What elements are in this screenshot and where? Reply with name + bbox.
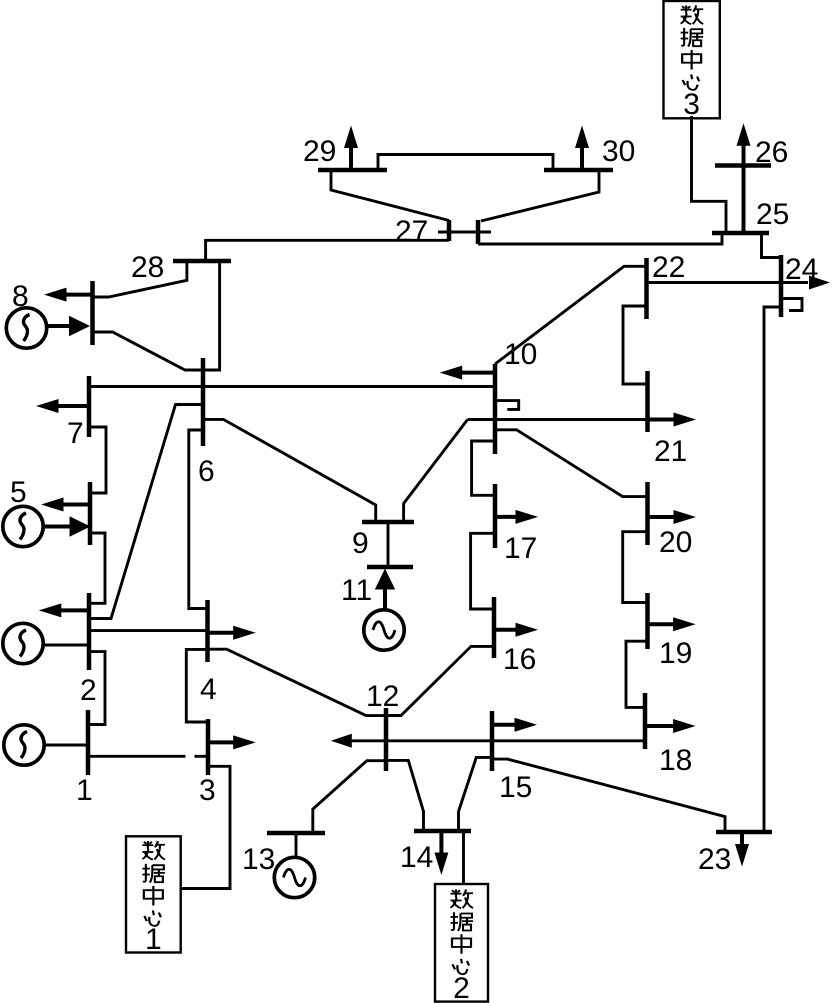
generator at bus 1: [4, 725, 44, 765]
line 17-16 bracket: [471, 533, 495, 609]
line 2-6: [89, 405, 203, 619]
load arrow at bus 5: [41, 498, 90, 512]
line 10-22: [495, 266, 647, 364]
generator 1 lead: [44, 744, 88, 747]
bus 29 busbar: [318, 168, 387, 173]
svg-text:20: 20: [659, 526, 692, 559]
load arrow at bus 16: [494, 623, 538, 637]
load arrow at bus 3: [208, 735, 256, 749]
load arrow at bus 2: [39, 603, 89, 617]
svg-text:12: 12: [366, 680, 399, 713]
line 7-6-10 tie: [89, 385, 495, 388]
line 2-1 bracket: [88, 652, 105, 725]
load arrow at bus 30: [575, 126, 589, 171]
line 2-4: [89, 629, 208, 632]
bus 14 busbar: [414, 829, 471, 834]
svg-text:3: 3: [683, 88, 700, 121]
load arrow at bus 24: [809, 276, 830, 290]
bus 11 busbar: [367, 565, 413, 570]
bus 13 busbar: [267, 831, 325, 836]
data center 1 box: [126, 836, 181, 952]
load arrow at bus 26 (line 25-26): [737, 123, 751, 233]
bus 15 busbar: [490, 711, 495, 771]
bus 7 busbar: [87, 376, 92, 437]
bus 20 busbar: [645, 482, 650, 545]
line 30-27: [481, 170, 599, 221]
bus 2 busbar: [87, 593, 92, 670]
data center 3 box: [664, 1, 720, 118]
bus 10 busbar: [493, 364, 498, 454]
bus 5 busbar: [88, 482, 93, 545]
load arrow at bus 23: [735, 832, 749, 867]
svg-text:26: 26: [755, 136, 788, 169]
load arrow at bus 12: [331, 734, 352, 748]
svg-text:21: 21: [654, 435, 687, 468]
svg-text:11: 11: [341, 574, 372, 607]
bus 30 busbar: [544, 168, 613, 173]
bus 3 busbar: [206, 719, 211, 775]
line 15-14 right leg: [459, 757, 493, 831]
bus 6 busbar: [201, 358, 206, 446]
line 19-18 bracket: [626, 641, 648, 707]
line 24-23: [764, 307, 781, 832]
wire bus 3 to data center 1: [181, 766, 230, 888]
stub at bus 10: [495, 401, 519, 410]
generator 2 lead: [44, 644, 89, 647]
line 10-17 bracket: [472, 441, 495, 495]
line 7-5 bracket: [89, 427, 106, 493]
svg-text:29: 29: [303, 135, 336, 168]
svg-text:10: 10: [504, 338, 537, 371]
generator 8 lead arrow: [46, 324, 72, 328]
svg-text:13: 13: [242, 843, 275, 876]
bus 4 busbar: [205, 600, 210, 662]
generator at bus 5: [3, 506, 43, 546]
load arrow at bus 29: [344, 126, 358, 171]
svg-text:14: 14: [400, 841, 433, 874]
svg-text:18: 18: [659, 744, 692, 777]
line 27-28: [206, 240, 449, 261]
wire data center 3 to bus 25: [692, 116, 727, 233]
svg-text:4: 4: [200, 673, 217, 706]
svg-text:27: 27: [395, 215, 428, 248]
bus 25 busbar: [712, 231, 769, 236]
svg-text:22: 22: [652, 251, 685, 284]
bus 19 busbar: [645, 593, 650, 649]
line 1-3 right segment: [195, 755, 209, 758]
bus 28 busbar: [173, 259, 231, 264]
bus 27 left busbar: [447, 220, 452, 241]
wire bus 14 to data center 2: [462, 831, 465, 885]
line 8-28: [93, 261, 187, 297]
load arrow at bus 7: [36, 399, 89, 413]
load arrow at bus 19: [648, 617, 696, 631]
svg-text:2: 2: [453, 972, 470, 1003]
line 12-14 left leg: [386, 760, 424, 831]
bus 9 busbar: [362, 520, 414, 525]
svg-text:6: 6: [198, 455, 215, 488]
svg-text:24: 24: [785, 253, 818, 286]
line 10-21: [468, 418, 648, 421]
line 10-20: [495, 430, 648, 497]
line 29-30: [378, 155, 553, 171]
svg-text:30: 30: [602, 135, 635, 168]
bus 18 busbar: [643, 693, 648, 749]
svg-text:15: 15: [499, 771, 532, 804]
line 9-10: [404, 420, 468, 523]
generator 13 lead: [295, 833, 298, 857]
svg-text:17: 17: [504, 532, 537, 565]
svg-text:28: 28: [131, 251, 164, 284]
line 5-2 bracket: [89, 533, 105, 603]
line 12-16: [386, 646, 494, 715]
line 6-9: [203, 419, 376, 522]
bus 27 right busbar: [476, 220, 481, 244]
svg-text:3: 3: [199, 774, 216, 807]
line 6-8 and 6-28: [93, 261, 220, 370]
load arrow at bus 20: [648, 510, 697, 524]
generator at bus 2: [3, 623, 43, 663]
line 25-24: [762, 233, 782, 258]
bus 8 busbar: [90, 281, 95, 345]
generator at bus 8: [6, 308, 46, 348]
generator 5 lead arrow: [43, 525, 72, 529]
line 20-19 bracket: [623, 532, 648, 603]
svg-text:1: 1: [145, 923, 162, 956]
bus 21 busbar: [645, 371, 650, 432]
svg-text:16: 16: [503, 643, 536, 676]
bus 27 tie: [438, 231, 491, 234]
svg-text:5: 5: [10, 476, 27, 509]
line 29-27: [331, 170, 449, 221]
load arrow at bus 8: [44, 288, 93, 302]
svg-text:1: 1: [76, 774, 93, 807]
line 12-13: [313, 761, 386, 833]
line 22-21 bracket: [623, 306, 648, 384]
bus 17 busbar: [493, 484, 498, 548]
load arrow at bus 14: [434, 831, 448, 875]
stub at bus 24: [781, 299, 802, 311]
line 4-12: [208, 649, 387, 715]
generator at bus 13: [274, 857, 314, 897]
line 15-23: [492, 759, 725, 832]
bus 23 busbar: [716, 830, 772, 835]
load arrow at bus 15: [492, 718, 537, 732]
svg-text:23: 23: [698, 843, 731, 876]
bus 26 busbar: [715, 163, 771, 168]
svg-text:19: 19: [659, 637, 692, 670]
line 27-25: [478, 233, 722, 244]
load arrow at bus 4: [208, 626, 256, 640]
line 9-11: [387, 522, 390, 567]
svg-text:8: 8: [12, 280, 29, 313]
bus 16 busbar: [492, 597, 497, 658]
load arrow at bus 10: [440, 366, 495, 380]
load arrow at bus 21: [648, 413, 697, 427]
bus 1 busbar: [86, 710, 91, 775]
load arrow at bus 17: [495, 510, 538, 524]
bus 12 busbar: [384, 708, 389, 771]
line 4-3 bracket: [186, 649, 208, 722]
svg-text:7: 7: [67, 417, 84, 450]
line 1-3 left segment: [88, 755, 186, 758]
bus 22 busbar: [644, 258, 649, 319]
load arrow at bus 18: [645, 719, 696, 733]
line 4-6: [189, 430, 208, 609]
line 12-15-18: [351, 739, 645, 742]
svg-text:25: 25: [756, 198, 789, 231]
data center 2 box: [435, 884, 488, 1002]
generator 11 lead arrow: [383, 588, 387, 610]
svg-text:9: 9: [352, 527, 369, 560]
svg-text:2: 2: [80, 674, 97, 707]
generator at bus 11: [364, 610, 404, 650]
bus 24 busbar: [779, 255, 784, 317]
line 22-24: [647, 281, 809, 284]
